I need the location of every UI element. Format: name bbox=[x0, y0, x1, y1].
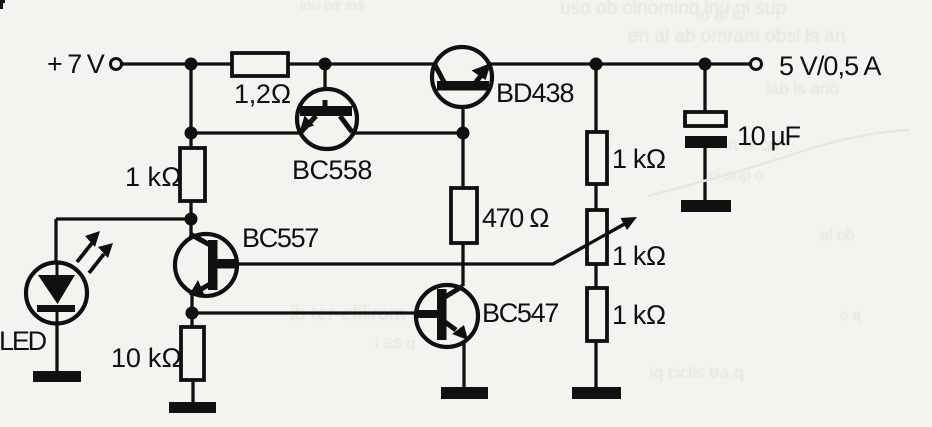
transistor Q2 BC558 bbox=[297, 89, 357, 149]
ground LED bbox=[33, 371, 81, 382]
LED light arrow 1 bbox=[77, 231, 100, 262]
resistor 10k bbox=[181, 327, 204, 380]
wire r1 to pot bbox=[594, 184, 597, 210]
corner mark bbox=[0, 0, 5, 9]
svg-text:1 kΩ: 1 kΩ bbox=[612, 300, 666, 330]
wire pot to r3 bbox=[594, 264, 597, 288]
svg-text:1 kΩ: 1 kΩ bbox=[125, 162, 182, 192]
ground capacitor bbox=[681, 200, 731, 212]
svg-text:10 kΩ: 10 kΩ bbox=[111, 343, 182, 373]
svg-text:en al ab omram obsl ls an: en al ab omram obsl ls an bbox=[628, 26, 846, 47]
wire left vertical x191 top bbox=[189, 64, 192, 148]
wire BC557 base to pot bbox=[238, 222, 628, 264]
wire BC558 emitter to left rail bbox=[191, 131, 300, 134]
wire rail BD438 to output bbox=[488, 62, 751, 65]
wire BD438 base down bbox=[461, 90, 464, 189]
wire BC557 emitter to BC547 base bbox=[192, 311, 417, 314]
wire rail 1,2ohm to BD438 bbox=[288, 62, 436, 65]
node input-1k2 junction bbox=[185, 58, 198, 71]
svg-text:+ 7 V: + 7 V bbox=[47, 49, 105, 79]
wire r3 to ground bbox=[594, 341, 597, 387]
svg-text:LED: LED bbox=[0, 326, 47, 356]
capacitor 10uF top plate bbox=[685, 112, 726, 126]
resistor 1,2 ohm bbox=[232, 53, 288, 76]
svg-text:inu oir ins: inu oir ins bbox=[300, 0, 364, 14]
node 1k2-BC558 base junction bbox=[319, 58, 332, 71]
node BD438 base junction bbox=[457, 127, 470, 140]
wire BC547 emitter to ground bbox=[462, 342, 465, 387]
LED light arrow 2 bbox=[89, 243, 113, 273]
LED D1 bbox=[26, 263, 87, 324]
svg-text:10 µF: 10 µF bbox=[737, 121, 800, 151]
wire top rail input bbox=[121, 62, 232, 65]
svg-text:iq ciclis tra q: iq ciclis tra q bbox=[650, 363, 744, 382]
ground 10k bbox=[169, 402, 216, 413]
wire BC558 base up bbox=[323, 64, 326, 106]
wire BC557 emitter down bbox=[190, 293, 193, 327]
wire 1k left to BC557 bbox=[189, 201, 192, 237]
ground BC547 bbox=[441, 387, 488, 399]
svg-text:1 kΩ: 1 kΩ bbox=[612, 144, 666, 174]
wire 470 to BC547 collector bbox=[461, 242, 464, 286]
svg-text:1 kΩ: 1 kΩ bbox=[612, 241, 666, 271]
svg-text:o q: o q bbox=[840, 307, 861, 324]
terminal output bbox=[751, 59, 762, 70]
svg-text:5 V/0,5 A: 5 V/0,5 A bbox=[779, 51, 881, 81]
node output-r chain junction bbox=[590, 58, 603, 71]
faint scan scratch (decorative) bbox=[648, 130, 910, 196]
svg-text:BC547: BC547 bbox=[482, 298, 558, 328]
ground right chain bbox=[572, 387, 621, 399]
node BC558 emitter junction bbox=[185, 127, 198, 140]
terminal +7V bbox=[111, 59, 122, 70]
wire LED to ground bbox=[55, 323, 58, 371]
svg-text:uso ob oinominq inu ni sup: uso ob oinominq inu ni sup bbox=[560, 0, 786, 19]
resistor 1k right top bbox=[587, 132, 607, 184]
node LED-BC557 junction bbox=[185, 213, 198, 226]
wire 10k to ground bbox=[191, 380, 194, 402]
transistor Q1 BD438 bbox=[432, 47, 492, 107]
node BC557 emitter junction bbox=[186, 307, 199, 320]
svg-text:BD438: BD438 bbox=[496, 78, 574, 108]
svg-text:o al ib: o al ib bbox=[700, 5, 745, 24]
resistor 470 ohm bbox=[451, 188, 477, 243]
wire LED top bbox=[56, 217, 191, 220]
svg-text:ni sup o: ni sup o bbox=[708, 167, 764, 184]
wire right chain top bbox=[594, 64, 597, 132]
capacitor 10uF bottom plate bbox=[685, 136, 727, 148]
node output-cap junction bbox=[699, 58, 712, 71]
svg-text:470 Ω: 470 Ω bbox=[482, 203, 549, 233]
wire cap to ground bbox=[703, 148, 706, 200]
svg-text:1,2Ω: 1,2Ω bbox=[234, 79, 291, 109]
resistor 1k left bbox=[180, 148, 205, 201]
transistor Q4 BC547 bbox=[416, 285, 478, 347]
transistor Q3 BC557 bbox=[175, 234, 238, 296]
svg-text:lab ls ano: lab ls ano bbox=[766, 79, 839, 98]
svg-text:BC558: BC558 bbox=[292, 155, 372, 185]
potentiometer 1k bbox=[553, 210, 637, 264]
svg-text:i SS q: i SS q bbox=[375, 335, 415, 352]
svg-text:al ob: al ob bbox=[820, 227, 855, 244]
wire BC558 collector to node bbox=[353, 131, 463, 134]
wire LED drop bbox=[54, 219, 57, 263]
svg-text:BC557: BC557 bbox=[242, 223, 318, 253]
ghost print-through text (decorative) bbox=[290, 0, 861, 382]
wire cap top bbox=[703, 64, 706, 113]
resistor 1k right bottom bbox=[587, 288, 607, 341]
